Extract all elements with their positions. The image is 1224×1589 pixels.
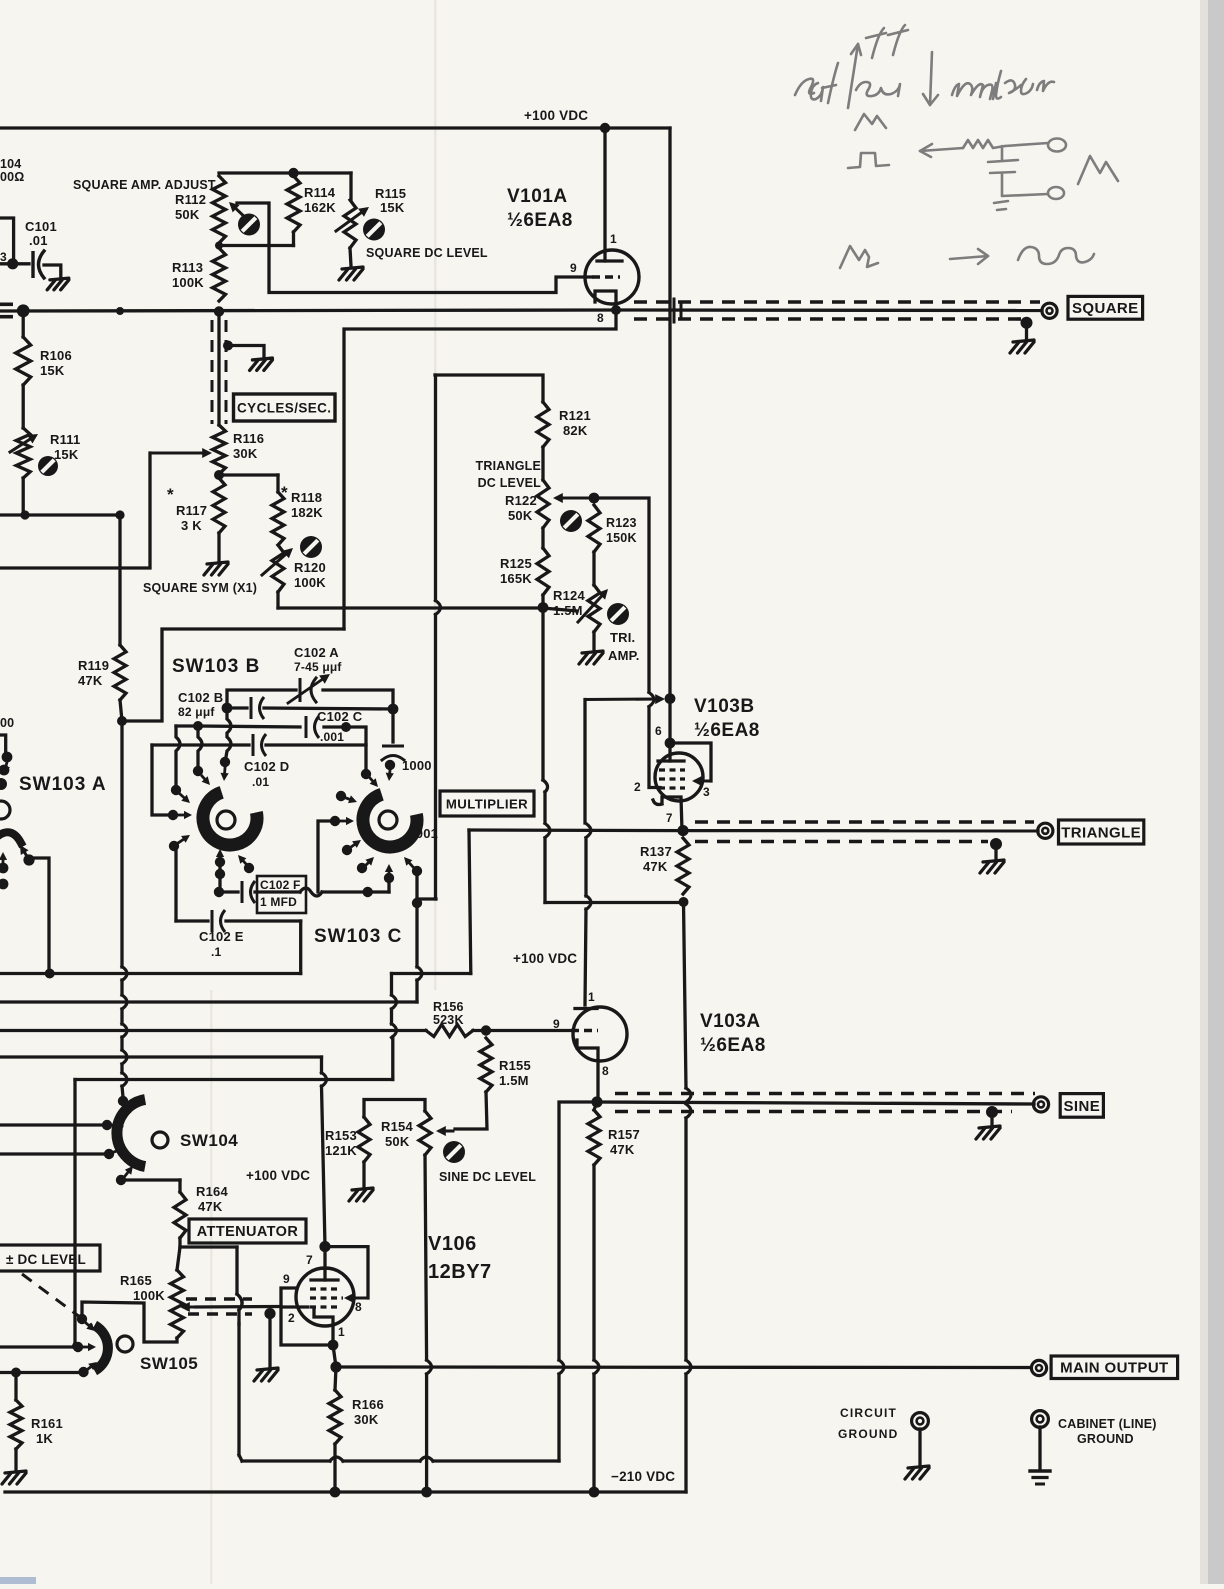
- wire R161 top: [14, 1373, 17, 1401]
- shield dashes triangle upper: [695, 820, 1034, 824]
- resistor R123: [588, 505, 600, 552]
- tube V103A envelope: [573, 1007, 627, 1061]
- node main output node: [330, 1361, 341, 1372]
- plate V103A pin1: [575, 1007, 597, 1010]
- rotor SW103 B: [203, 792, 257, 845]
- svg-text:R156: R156: [433, 1000, 464, 1014]
- svg-text:TRI.: TRI.: [610, 630, 635, 645]
- node R122 wiper / R123 top: [589, 493, 600, 504]
- capacitor C102F: [241, 881, 244, 903]
- svg-text:8: 8: [597, 311, 604, 325]
- wire y608 to R124 wiper: [543, 608, 577, 611]
- potentiometer R122: [537, 480, 549, 528]
- wire SE pair down to y1002: [415, 903, 418, 967]
- wire R120 bottom to y608: [276, 592, 279, 608]
- node C102F left: [214, 887, 224, 897]
- terminal MAIN OUTPUT: [1031, 1360, 1046, 1375]
- contact SW104 top: [118, 1096, 128, 1106]
- svg-text:½6EA8: ½6EA8: [694, 720, 760, 741]
- potentiometer R112: [213, 176, 226, 243]
- wire +100 VDC top rail: [0, 126, 670, 129]
- svg-text:TRIANGLE: TRIANGLE: [1061, 824, 1141, 841]
- svg-text:SQUARE SYM (X1): SQUARE SYM (X1): [143, 581, 257, 595]
- resistor R164: [174, 1192, 186, 1238]
- potentiometer R154: [419, 1111, 431, 1155]
- svg-text:C101: C101: [25, 219, 57, 234]
- wire x435 vertical: [434, 375, 437, 601]
- wire SW103A top stub: [0, 735, 6, 752]
- svg-text:± DC LEVEL: ± DC LEVEL: [6, 1252, 86, 1267]
- hop y1461 over x426: [420, 1457, 433, 1461]
- svg-text:R125: R125: [500, 556, 532, 571]
- svg-text:C102 F: C102 F: [260, 878, 301, 892]
- box SINE: [1060, 1094, 1103, 1118]
- svg-text:−210 VDC: −210 VDC: [611, 1469, 675, 1484]
- ground attn shield: [254, 1368, 278, 1381]
- node R112/R113/R114 bottom: [215, 242, 223, 250]
- wire triangle line left segment: [469, 828, 683, 832]
- svg-text:DC LEVEL: DC LEVEL: [478, 476, 542, 490]
- svg-text:C102 E: C102 E: [199, 929, 244, 944]
- svg-text:R122: R122: [505, 493, 537, 508]
- svg-text:R137: R137: [640, 844, 672, 859]
- wire square shield ground stem: [1025, 323, 1028, 339]
- wire R124/R125 node to R137 node: [545, 901, 678, 904]
- wire node to R106: [22, 311, 25, 337]
- shield dashes sine lower: [615, 1110, 1012, 1114]
- shield dashes sine upper: [615, 1092, 1035, 1096]
- box MAIN OUTPUT: [1051, 1356, 1178, 1379]
- svg-text:50K: 50K: [175, 207, 200, 222]
- earth ground cabinet: [1030, 1469, 1050, 1472]
- node triangle output: [677, 825, 688, 836]
- wire R155 to R154 wiper: [455, 1092, 487, 1129]
- scan edge shadow right: [1206, 0, 1224, 1584]
- svg-text:R112: R112: [175, 192, 206, 207]
- svg-text:½6EA8: ½6EA8: [700, 1035, 766, 1056]
- wire C102D left drop: [152, 745, 168, 815]
- plate V106: [323, 1247, 326, 1280]
- svg-text:R121: R121: [559, 408, 591, 423]
- box CYCLES/SEC.: [234, 394, 336, 421]
- node C102B left: [222, 703, 233, 714]
- svg-text:1.5M: 1.5M: [499, 1073, 529, 1088]
- grid bracket V106: [281, 1288, 333, 1345]
- wire R157 top: [594, 1102, 597, 1110]
- svg-text:+100 VDC: +100 VDC: [513, 951, 577, 966]
- ground R153: [349, 1188, 373, 1201]
- terminal SQUARE: [1042, 303, 1057, 318]
- node R119 bottom: [117, 716, 127, 726]
- node square shield ground: [1021, 317, 1033, 329]
- box SQUARE: [1068, 296, 1143, 319]
- wire C102E line: [176, 919, 208, 922]
- svg-text:R113: R113: [172, 260, 203, 275]
- wire C101 to cap: [13, 262, 29, 265]
- svg-text:ATTENUATOR: ATTENUATOR: [197, 1224, 299, 1240]
- contact SW103C SE pair: [412, 866, 422, 876]
- wire C102E right drop: [299, 921, 302, 974]
- grid V101A pin 9 (dashes): [592, 275, 620, 278]
- wire R117 node to R118: [219, 473, 278, 476]
- wire R119 top: [118, 515, 121, 645]
- wire R154 bottom to -210: [425, 1155, 427, 1360]
- svg-text:1000: 1000: [402, 758, 432, 773]
- svg-text:8: 8: [602, 1064, 609, 1078]
- resistor R156 (horizontal): [426, 1025, 473, 1037]
- wire C102D line: [152, 743, 249, 746]
- cathode V103B: [653, 797, 682, 831]
- svg-text:104: 104: [0, 157, 21, 171]
- wire SW103A feed: [27, 858, 49, 968]
- shield dashes left cable upper: [0, 302, 20, 306]
- svg-text:47K: 47K: [78, 673, 103, 688]
- svg-text:15K: 15K: [40, 363, 65, 378]
- node R156/R155: [481, 1025, 491, 1035]
- svg-text:GROUND: GROUND: [838, 1427, 899, 1441]
- screwdriver adjust R115: [363, 219, 385, 241]
- node V106 plate junction: [319, 1241, 330, 1252]
- wire x392 riser: [390, 974, 393, 996]
- wire y568 line: [0, 453, 150, 568]
- svg-text:3: 3: [0, 250, 7, 264]
- wire SE pair to multiplier vertical: [417, 897, 436, 900]
- capacitor C101: [31, 251, 34, 278]
- wiper arrow R112: [232, 205, 250, 222]
- svg-text:00: 00: [0, 716, 14, 730]
- box ATTENUATOR: [189, 1219, 306, 1243]
- node attn shield ground: [264, 1308, 275, 1319]
- resistor R118: [272, 492, 284, 545]
- svg-text:SW103 A: SW103 A: [19, 774, 107, 795]
- node +100 VDC rail / V101A plate: [600, 123, 610, 133]
- contact SW103C S: [357, 863, 367, 873]
- ground sine shield: [976, 1126, 1000, 1139]
- wire R115 to ground: [350, 248, 351, 266]
- cathode V106: [314, 1310, 333, 1345]
- wire triangle line to terminal: [683, 829, 1038, 833]
- wire +100 to plate loop left: [585, 698, 661, 701]
- resistor R137: [677, 838, 689, 894]
- capacitor C102D: [252, 734, 255, 756]
- wire attenuator signal: [196, 1305, 281, 1309]
- wire 1000 cap feed: [391, 709, 394, 742]
- svg-text:182K: 182K: [291, 505, 323, 520]
- ground shaft: [250, 358, 273, 370]
- shield bracket at crossing: [673, 299, 676, 322]
- wire C101 from edge: [0, 262, 13, 265]
- svg-text:150K: 150K: [606, 531, 637, 545]
- svg-text:165K: 165K: [500, 571, 532, 586]
- wire R121-R122: [541, 447, 544, 480]
- node left bus a: [20, 510, 29, 519]
- svg-text:1.5M: 1.5M: [553, 603, 583, 618]
- wire y515: [0, 513, 120, 516]
- wire R154 hop over y1367: [427, 1360, 432, 1374]
- resistor R166: [329, 1390, 341, 1444]
- wiper arrow R124: [578, 592, 605, 622]
- svg-text:+100 VDC: +100 VDC: [524, 108, 588, 123]
- wire R166 top: [335, 1367, 336, 1390]
- svg-text:C102 A: C102 A: [294, 645, 339, 660]
- node R116/R117/R118: [214, 470, 224, 480]
- svg-text:R120: R120: [294, 560, 326, 575]
- wire R164-R165 junction: [178, 1238, 181, 1247]
- contact SW103A blob: [0, 778, 7, 790]
- mech dashes DC LEVEL to SW105: [22, 1274, 92, 1326]
- ground C101: [47, 278, 69, 290]
- resistor R121: [537, 402, 549, 447]
- wire C101 to ground: [44, 265, 61, 277]
- pencil annotations (handwriting): [795, 25, 1118, 268]
- resistor R161: [10, 1400, 22, 1449]
- wire SW105 mid: [0, 1345, 73, 1348]
- node sine output: [591, 1096, 602, 1107]
- terminal TRIANGLE: [1038, 823, 1053, 838]
- svg-text:V106: V106: [428, 1233, 477, 1255]
- svg-text:AMP.: AMP.: [608, 648, 640, 663]
- rotor hub SW104: [152, 1132, 168, 1148]
- svg-text:100K: 100K: [172, 275, 204, 290]
- resistor R119: [114, 645, 126, 700]
- wire W contact: [318, 821, 335, 892]
- tube V103B envelope: [655, 753, 703, 801]
- svg-text:R118: R118: [291, 490, 322, 505]
- screen loop V106 pin8: [325, 1247, 368, 1298]
- contact SW105 bot: [78, 1367, 88, 1377]
- plate V103B: [668, 743, 671, 761]
- wire C102E left: [174, 846, 177, 921]
- contact SW103C S stack: [384, 873, 394, 883]
- ground under R115: [339, 267, 363, 280]
- svg-text:1K: 1K: [36, 1431, 53, 1446]
- svg-text:30K: 30K: [233, 446, 258, 461]
- svg-text:R154: R154: [381, 1119, 413, 1134]
- contact SW104 S: [116, 1175, 126, 1185]
- plate V101A pin 1: [597, 259, 622, 262]
- svg-text:CIRCUIT: CIRCUIT: [840, 1406, 897, 1420]
- potentiometer R124 TRI AMP: [588, 585, 600, 632]
- node square line left: [17, 304, 30, 317]
- node R137 bottom: [679, 897, 689, 907]
- svg-text:SW104: SW104: [180, 1131, 238, 1150]
- screwdriver adjust R111: [38, 456, 58, 476]
- wire SW105 bot: [0, 1371, 79, 1374]
- wire circuit ground stem: [918, 1429, 921, 1466]
- node C102B right: [388, 704, 399, 715]
- wire R125 bottom: [541, 595, 544, 608]
- shield dashes triangle lower: [695, 840, 988, 844]
- wire square output to terminal: [616, 308, 1042, 312]
- svg-text:C102 C: C102 C: [317, 709, 363, 724]
- svg-text:15K: 15K: [54, 447, 79, 462]
- svg-text:R114: R114: [304, 185, 336, 200]
- potentiometer R120: [272, 545, 284, 592]
- wire R122-R125: [541, 528, 544, 548]
- potentiometer R165: [171, 1270, 184, 1338]
- node y608 junction: [538, 602, 549, 613]
- node R161 tap: [11, 1368, 21, 1378]
- rotor SW103 C: [363, 794, 417, 847]
- node triangle shield ground: [990, 838, 1002, 850]
- capacitor C 1000: [382, 745, 404, 748]
- contact SW103A lower stack: [0, 863, 8, 874]
- wiper arrow R115: [336, 209, 366, 231]
- rotor hub SW103A (partial): [0, 801, 10, 819]
- contact SW103A stack top: [2, 752, 13, 763]
- svg-text:1: 1: [588, 990, 595, 1004]
- wire y1079 line: [75, 1078, 393, 1081]
- svg-text:SQUARE AMP. ADJUST: SQUARE AMP. ADJUST: [73, 178, 216, 192]
- svg-text:SW103 B: SW103 B: [172, 656, 260, 677]
- svg-text:100K: 100K: [133, 1288, 165, 1303]
- wire x545 from y608 node: [541, 608, 544, 781]
- node SW103A feed: [45, 969, 55, 979]
- svg-text:*: *: [167, 485, 174, 504]
- svg-text:C102 B: C102 B: [178, 690, 223, 705]
- wire +100 VDC drop to x=670: [668, 128, 671, 698]
- ground R117: [204, 562, 228, 575]
- trimmer C102A: [299, 678, 302, 702]
- ground R161: [2, 1471, 26, 1484]
- wire shaft ground: [228, 346, 264, 358]
- wire R157 to -210 bus: [592, 1165, 595, 1360]
- wiper arrow R154: [440, 1130, 453, 1133]
- contact SW103C top: [385, 760, 395, 770]
- capacitor C102C: [305, 716, 308, 738]
- wire R112 wiper down: [237, 203, 269, 246]
- node C102C left: [193, 721, 203, 731]
- wire R122 wiper to V103B grid: [594, 498, 649, 692]
- svg-text:2: 2: [634, 780, 641, 794]
- potentiometer R116: [213, 425, 226, 474]
- svg-text:82 μμf: 82 μμf: [178, 705, 215, 719]
- contact wire NNW: [198, 726, 202, 766]
- svg-text:R116: R116: [233, 431, 264, 446]
- svg-text:3: 3: [703, 785, 710, 799]
- svg-text:R124: R124: [553, 588, 585, 603]
- wire B-node to top contact: [226, 708, 231, 757]
- resistor R113: [213, 248, 226, 301]
- wiper arrow R165: [184, 1306, 196, 1309]
- wire R161 ground stem: [14, 1449, 17, 1470]
- shield dashes square lower: [634, 317, 1026, 321]
- wire C102B line: [227, 706, 247, 709]
- wire square signal line (to left page edge): [0, 310, 616, 311]
- svg-text:R111: R111: [50, 432, 80, 447]
- svg-text:7: 7: [666, 813, 673, 825]
- node R166 on bus: [330, 1487, 341, 1498]
- resistor R157: [588, 1110, 600, 1165]
- svg-text:½6EA8: ½6EA8: [507, 210, 573, 231]
- svg-text:100K: 100K: [294, 575, 326, 590]
- svg-text:47K: 47K: [610, 1142, 635, 1157]
- grid dashes V103A: [571, 1029, 598, 1032]
- contact SW103A wiper arm: [22, 848, 28, 858]
- svg-text:SW105: SW105: [140, 1354, 198, 1373]
- resistor R106: [16, 337, 31, 385]
- svg-text:30K: 30K: [354, 1412, 379, 1427]
- grid dashes V106: [310, 1287, 337, 1290]
- svg-text:50K: 50K: [508, 508, 533, 523]
- svg-text:CYCLES/SEC.: CYCLES/SEC.: [237, 400, 331, 415]
- ground triangle shield: [980, 860, 1004, 873]
- wiper arrow R122: [557, 497, 592, 500]
- wire attn shield ground stem: [268, 1314, 271, 1367]
- node V103B plate junction: [665, 693, 676, 704]
- wire C102C line: [176, 726, 300, 727]
- wire y973 left segment: [0, 972, 301, 975]
- wiper arrow R120: [262, 551, 290, 575]
- wire y1002 line: [0, 1000, 417, 1003]
- resistor R114: [287, 176, 300, 232]
- node sine shield ground: [986, 1106, 998, 1118]
- wire cathode return down: [344, 310, 616, 629]
- wire R106 to R111: [22, 385, 25, 428]
- node C102C right: [341, 722, 351, 732]
- svg-text:7: 7: [306, 1253, 313, 1267]
- svg-text:00Ω: 00Ω: [0, 170, 25, 184]
- rotor SW104: [117, 1100, 145, 1167]
- wire x469 triangle drop: [469, 830, 471, 974]
- contact SW103B SE: [244, 863, 254, 873]
- wire R165 top: [177, 1247, 180, 1270]
- wire sine line to terminal: [597, 1102, 1034, 1104]
- screwdriver adjust R112: [238, 214, 260, 236]
- wire SW104 S to R164: [121, 1178, 180, 1181]
- wire C102F line: [219, 890, 238, 893]
- terminal cabinet ground: [1032, 1411, 1049, 1428]
- svg-text:8: 8: [355, 1300, 362, 1314]
- wire C101 from left edge: [0, 218, 14, 263]
- wire y973 right segment: [392, 972, 471, 975]
- wire main output line: [336, 1365, 1031, 1369]
- wire triangle ground stem: [994, 844, 997, 859]
- node square line R119 tap: [116, 307, 124, 315]
- svg-text:162K: 162K: [304, 200, 336, 215]
- ganged shaft dashes (R112-R116): [211, 320, 214, 424]
- contact SW103C NW2: [361, 769, 371, 779]
- grid dashes V103B: [659, 768, 685, 771]
- hop y1461 over R166: [330, 1457, 343, 1461]
- wiper feed R116: [150, 452, 208, 455]
- page crease upper: [434, 0, 437, 990]
- contact SW104 W1: [102, 1120, 112, 1130]
- svg-text:523K: 523K: [433, 1013, 464, 1027]
- screwdriver adjust R120: [300, 536, 322, 558]
- potentiometer R115: [344, 200, 356, 248]
- wire R119 bottom L: [120, 700, 122, 721]
- contact SW103B top: [220, 757, 230, 767]
- wire V101A grid lead: [269, 246, 592, 293]
- wire SW104 W1: [0, 1123, 102, 1126]
- svg-text:R115: R115: [375, 186, 406, 201]
- svg-text:MAIN OUTPUT: MAIN OUTPUT: [1060, 1360, 1169, 1377]
- wire x585 +100 drop: [583, 700, 586, 824]
- wire R123-R124: [592, 552, 595, 585]
- svg-text:R123: R123: [606, 516, 637, 530]
- wire R112 top to R114 top: [219, 171, 294, 174]
- contact SW104 W2: [104, 1149, 114, 1159]
- node C102F right: [363, 887, 373, 897]
- svg-text:.1: .1: [211, 945, 222, 959]
- wire y1057 line: [0, 1055, 322, 1058]
- node V106 cathode/grid-return: [328, 1340, 339, 1351]
- svg-text:.01: .01: [252, 775, 269, 789]
- svg-text:R106: R106: [40, 348, 72, 363]
- svg-text:R161: R161: [31, 1416, 63, 1431]
- wire cabinet ground stem: [1038, 1427, 1041, 1470]
